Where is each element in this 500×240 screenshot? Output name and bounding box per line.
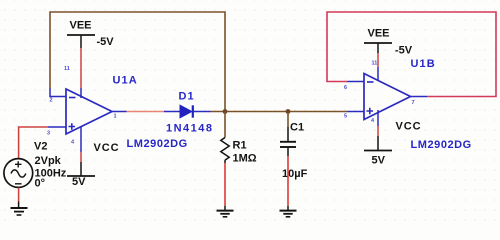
resistor R1 zigzag xyxy=(221,138,229,161)
wire: R1 branch (brown) xyxy=(224,112,226,138)
svg-text:5V: 5V xyxy=(72,176,86,188)
svg-text:0°: 0° xyxy=(35,178,46,190)
svg-text:10µF: 10µF xyxy=(282,168,308,180)
wire VEE stem red net (U1B) xyxy=(377,53,379,67)
diode D1 triangle xyxy=(180,105,192,118)
VCC power symbol bar (U1A) xyxy=(67,175,95,177)
svg-text:5V: 5V xyxy=(372,155,386,167)
wire VCC stem red net (U1A) xyxy=(80,152,82,162)
wire VCC stem red net (U1B) xyxy=(377,126,379,136)
capacitor C1 top plate xyxy=(280,141,296,143)
pin 5 stub (U1B non-inverting) xyxy=(348,111,365,113)
VEE power symbol bar (U1B) xyxy=(364,42,392,44)
svg-text:3: 3 xyxy=(47,131,50,137)
wire R1 to ground (red) xyxy=(224,163,226,206)
VCC power symbol bar (U1B) xyxy=(364,150,392,152)
V2 plus sign xyxy=(15,161,22,167)
svg-text:7: 7 xyxy=(412,100,415,106)
svg-text:LM2902DG: LM2902DG xyxy=(127,138,188,150)
wire: U1A output net (salmon) xyxy=(127,111,165,113)
op-amp U1B triangle xyxy=(364,74,411,120)
V2 minus sign xyxy=(15,183,22,185)
pin 3 stub (non-inverting input) xyxy=(48,126,66,128)
svg-text:1: 1 xyxy=(114,114,117,120)
wire VEE stem black (U1A) xyxy=(80,35,82,48)
capacitor C1 bottom lead xyxy=(287,147,289,156)
wire C1 ground stem black xyxy=(287,206,289,211)
svg-text:11: 11 xyxy=(372,61,378,67)
wire VCC stem black (U1B) xyxy=(377,136,379,151)
wire VCC stem black (U1A) xyxy=(80,162,82,176)
svg-text:VEE: VEE xyxy=(70,20,92,32)
junction at C1 tap xyxy=(286,109,291,114)
pin 6 stub (U1B inverting) xyxy=(348,81,365,83)
wire C1 to ground (red) xyxy=(287,156,289,206)
ground symbol (R1) xyxy=(217,211,234,217)
svg-text:V2: V2 xyxy=(34,141,47,153)
wire R1 ground stem black xyxy=(224,206,226,211)
pin 4 stub U1A (VCC) xyxy=(80,126,82,152)
svg-text:-5V: -5V xyxy=(97,36,115,48)
source V2 circle xyxy=(4,159,33,188)
wire VEE stem red net (U1A) xyxy=(80,48,82,88)
VEE power symbol bar (U1A) xyxy=(67,34,95,36)
wire R1 to ground black top xyxy=(224,160,226,163)
svg-text:LM2902DG: LM2902DG xyxy=(411,139,472,151)
junction at R1 tap xyxy=(223,109,228,114)
U1B plus input marker xyxy=(367,108,374,115)
wire: blue segment into U1A inverting pin 2 xyxy=(50,88,66,97)
svg-text:R1: R1 xyxy=(233,140,247,152)
pin 7 stub (U1B output) xyxy=(411,96,428,98)
wire V2 bottom black xyxy=(18,202,20,209)
U1A plus input marker xyxy=(69,123,76,130)
U1B minus input marker xyxy=(367,81,374,83)
svg-text:U1B: U1B xyxy=(411,58,436,70)
capacitor C1 top lead xyxy=(287,127,289,141)
pin 4 stub U1B (VCC) xyxy=(377,110,379,126)
diode D1 anode stub xyxy=(164,111,180,113)
svg-text:1MΩ: 1MΩ xyxy=(233,153,257,165)
svg-text:11: 11 xyxy=(64,66,70,72)
svg-text:C1: C1 xyxy=(290,122,304,134)
svg-text:4: 4 xyxy=(371,118,375,124)
op-amp U1A triangle xyxy=(66,89,112,134)
pin 11 stub U1A xyxy=(80,88,82,98)
diode D1 cathode stub xyxy=(193,111,211,113)
wire: feedback net U1B (crimson loop) xyxy=(327,12,496,97)
svg-text:2: 2 xyxy=(50,98,53,104)
pin 11 stub U1B xyxy=(377,67,379,80)
svg-text:VCC: VCC xyxy=(94,142,120,154)
svg-text:4: 4 xyxy=(71,140,75,146)
svg-text:6: 6 xyxy=(344,85,347,91)
V2 sine symbol xyxy=(11,170,26,177)
svg-text:D1: D1 xyxy=(179,91,195,103)
svg-text:VCC: VCC xyxy=(396,121,422,133)
U1A minus input marker xyxy=(69,97,76,99)
capacitor C1 bottom plate xyxy=(280,146,296,148)
svg-text:-5V: -5V xyxy=(395,45,413,57)
svg-text:2Vpk: 2Vpk xyxy=(35,155,62,167)
wire VEE stem black (U1B) xyxy=(377,43,379,53)
wire: V2 to U1A non-inverting (red) xyxy=(19,127,48,159)
ground symbol (C1) xyxy=(280,211,297,217)
pin 1 stub (U1A output) xyxy=(112,111,127,113)
diode D1 cathode bar xyxy=(192,105,194,117)
svg-text:5: 5 xyxy=(344,114,347,120)
svg-text:1N4148: 1N4148 xyxy=(166,123,214,135)
ground symbol (V2) xyxy=(11,208,28,215)
svg-text:VEE: VEE xyxy=(368,28,390,40)
wire: rectified net horizontal (brown) xyxy=(211,111,348,113)
wire: feedback net U1A (brown loop) xyxy=(50,12,225,112)
wire: C1 branch (brown) xyxy=(287,112,289,128)
wire V2 bottom red xyxy=(18,188,20,202)
svg-text:U1A: U1A xyxy=(113,75,138,87)
